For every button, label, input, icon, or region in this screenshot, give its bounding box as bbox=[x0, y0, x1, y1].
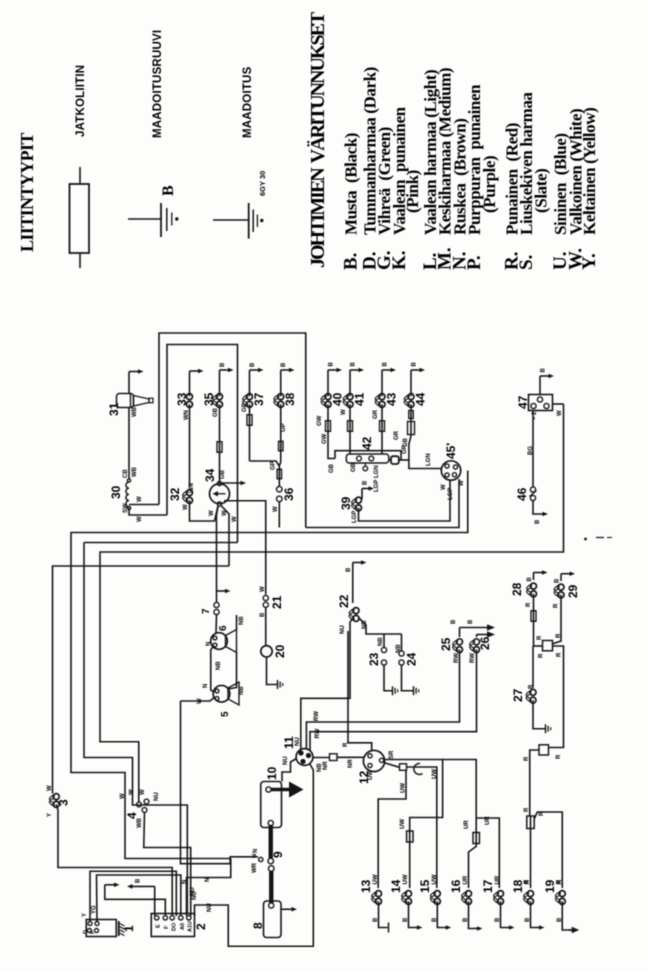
wire 12 right distribution bbox=[384, 760, 443, 832]
wire 33 to connector 32 bbox=[189, 404, 191, 486]
lamp 40 ground arrow bbox=[327, 370, 329, 396]
wire 47 W to long run L3 bbox=[553, 403, 564, 405]
svg-text:R: R bbox=[537, 635, 543, 640]
svg-text:B: B bbox=[329, 362, 335, 367]
svg-text:R: R bbox=[556, 633, 562, 638]
svg-text:W: W bbox=[232, 516, 238, 522]
svg-text:43: 43 bbox=[385, 392, 399, 406]
connector 44 bbox=[408, 394, 414, 400]
svg-text:33: 33 bbox=[175, 392, 189, 406]
wire coil CB to box bbox=[129, 504, 159, 506]
svg-text:NU: NU bbox=[154, 792, 160, 801]
svg-text:N: N bbox=[182, 880, 188, 884]
svg-text:UR: UR bbox=[464, 820, 470, 829]
svg-text:R: R bbox=[526, 602, 532, 607]
svg-text:NB: NB bbox=[239, 616, 245, 625]
lamp 43 ground arrow bbox=[381, 370, 383, 396]
svg-text:4: 4 bbox=[125, 812, 139, 819]
horn 5 bbox=[213, 685, 230, 702]
indicator big arrow bbox=[272, 788, 292, 792]
wire 32 to 34 bottom bbox=[190, 500, 219, 521]
svg-text:20: 20 bbox=[273, 644, 287, 658]
wire 26 to wiper switch 11 bbox=[310, 650, 477, 751]
svg-text:N: N bbox=[203, 684, 209, 688]
wire lamp 19 feed bbox=[534, 812, 562, 888]
svg-text:34: 34 bbox=[203, 468, 217, 482]
svg-text:K.: K. bbox=[389, 250, 410, 270]
svg-text:LGP: LGP bbox=[448, 488, 454, 500]
wire 12 to lamp 13 bbox=[378, 770, 406, 888]
lamp 16 connector bbox=[466, 891, 472, 897]
wire 28 down with fuse bbox=[533, 594, 535, 646]
wire 27 ground bbox=[533, 700, 545, 729]
ignition coil 30 bbox=[127, 479, 130, 482]
svg-text:44: 44 bbox=[414, 392, 428, 406]
wire 25 to wiper switch 11 bbox=[306, 650, 459, 750]
wire 29 down to connector block bbox=[552, 595, 561, 644]
connector 25 bbox=[457, 639, 463, 645]
svg-text:RW: RW bbox=[470, 653, 476, 663]
svg-text:B.: B. bbox=[340, 253, 361, 270]
svg-text:5: 5 bbox=[220, 711, 231, 717]
svg-text:MAADOITUS: MAADOITUS bbox=[242, 66, 254, 138]
lamp 26 ground arrow bbox=[476, 635, 478, 638]
svg-text:31: 31 bbox=[107, 402, 121, 416]
lamp 41 ground arrow bbox=[349, 370, 351, 396]
switch 34 ground arrow bbox=[222, 482, 242, 484]
lamp 13 connector bbox=[376, 891, 382, 897]
wire 45 to harness box bottom bbox=[306, 479, 459, 528]
svg-text:27: 27 bbox=[511, 688, 525, 702]
svg-text:W: W bbox=[260, 586, 266, 592]
svg-text:D: D bbox=[83, 930, 89, 934]
svg-text:W: W bbox=[441, 484, 447, 490]
connector 39 bbox=[356, 497, 362, 503]
svg-text:UR: UR bbox=[495, 875, 501, 884]
wire connector block to 27 and down bbox=[534, 645, 543, 647]
svg-text:36: 36 bbox=[282, 487, 296, 501]
svg-text:UW: UW bbox=[432, 874, 438, 884]
svg-text:W: W bbox=[209, 510, 215, 516]
pigtail curl bbox=[414, 763, 423, 774]
svg-text:GB: GB bbox=[329, 463, 335, 473]
svg-text:NB: NB bbox=[378, 637, 384, 646]
svg-text:W: W bbox=[183, 504, 189, 510]
wire 47 to horn button 46 BG bbox=[532, 411, 534, 487]
svg-text:NU: NU bbox=[283, 756, 289, 765]
connector 41 bbox=[347, 394, 353, 400]
bullet connector 11-12 bbox=[330, 754, 338, 761]
fuse box 2 bbox=[151, 914, 194, 937]
svg-text:B: B bbox=[541, 368, 547, 373]
svg-text:SW: SW bbox=[123, 503, 129, 513]
ignition unit 1 box bbox=[86, 920, 116, 937]
svg-text:B: B bbox=[383, 362, 389, 367]
svg-text:(Pink): (Pink) bbox=[403, 170, 422, 213]
wire horn 6 to horn 5 left bbox=[211, 647, 214, 693]
horn button 46 bbox=[530, 487, 535, 492]
lamp 38 ground arrow bbox=[280, 370, 282, 396]
connector 4 bbox=[137, 802, 142, 807]
clock 20 ground bbox=[267, 657, 278, 685]
svg-text:– 2: – 2 bbox=[532, 411, 538, 420]
svg-text:UW: UW bbox=[401, 783, 407, 793]
wire 22 to 23/24 NB bbox=[359, 618, 402, 635]
svg-text:GP: GP bbox=[281, 423, 287, 432]
lamp 14 connector bbox=[406, 891, 412, 897]
wire 12 to lamp 15 bbox=[407, 767, 437, 888]
svg-text:B: B bbox=[451, 619, 457, 624]
svg-text:Y: Y bbox=[82, 913, 88, 917]
connector 38 bbox=[278, 394, 284, 400]
svg-text:14: 14 bbox=[389, 879, 403, 893]
connector 35 bbox=[217, 394, 223, 400]
flasher switch 45 bbox=[441, 461, 460, 480]
wire 24 ground bbox=[402, 665, 414, 691]
svg-text:GR: GR bbox=[402, 444, 408, 454]
svg-text:11: 11 bbox=[282, 736, 296, 749]
svg-text:35: 35 bbox=[202, 392, 216, 406]
svg-text:29: 29 bbox=[566, 584, 580, 598]
connector 36 bbox=[278, 466, 280, 486]
connector 27 bbox=[532, 646, 534, 688]
wire run L1 bbox=[71, 471, 468, 859]
connector 7 bbox=[214, 602, 219, 607]
svg-text:R: R bbox=[343, 742, 349, 747]
svg-text:A1U: A1U bbox=[188, 921, 194, 932]
wire 39 to 45 bbox=[359, 480, 451, 521]
svg-text:LIITINTYYPIT: LIITINTYYPIT bbox=[17, 133, 37, 252]
clock 20 bbox=[265, 607, 267, 645]
lamp 15 connector bbox=[434, 891, 440, 897]
wire to lamp 14 with bullet bbox=[409, 831, 411, 888]
lamp 31 body bbox=[117, 394, 134, 408]
wire fuse box N to solenoid bbox=[187, 859, 231, 917]
lamp 25 ground arrow bbox=[459, 628, 461, 638]
wire to lamp 17 bbox=[476, 818, 499, 888]
svg-text:SR: SR bbox=[389, 750, 395, 759]
svg-text:B: B bbox=[412, 362, 418, 367]
svg-text:W: W bbox=[120, 793, 126, 799]
svg-text:B: B bbox=[351, 362, 357, 367]
wire 40 to instrument 42 bbox=[328, 404, 335, 458]
svg-text:23: 23 bbox=[367, 652, 381, 666]
wire 34 to long bus L4 bbox=[222, 506, 230, 566]
svg-text:21: 21 bbox=[270, 595, 284, 609]
wire harness box inner bbox=[167, 345, 238, 543]
svg-text:GB: GB bbox=[213, 407, 219, 417]
wire to lamp 16 with bullet bbox=[469, 818, 477, 888]
svg-text:R: R bbox=[524, 879, 530, 884]
connector 33 bbox=[187, 394, 193, 400]
svg-text:UW: UW bbox=[403, 874, 409, 884]
svg-text:UW: UW bbox=[373, 874, 379, 884]
wire 11 to wiper motor 12 bbox=[313, 757, 329, 759]
svg-text:WR: WR bbox=[252, 862, 258, 873]
svg-text:R: R bbox=[557, 879, 563, 884]
svg-text:16: 16 bbox=[449, 879, 463, 893]
lamp 19 connector bbox=[559, 891, 565, 897]
svg-text:13: 13 bbox=[359, 879, 373, 893]
wire run L3 bbox=[100, 404, 564, 554]
svg-text:25: 25 bbox=[439, 637, 453, 651]
wire 36 down to bottom bus bbox=[278, 502, 280, 528]
wire 43 to instrument 42 bbox=[381, 404, 383, 454]
svg-text:39: 39 bbox=[339, 496, 353, 510]
relay 47 ground arrow bbox=[539, 376, 541, 395]
svg-text:40: 40 bbox=[331, 392, 345, 406]
switch 22 ground arrow bbox=[352, 563, 354, 604]
svg-text:CB: CB bbox=[123, 469, 129, 478]
svg-text:W: W bbox=[273, 506, 279, 512]
svg-text:GB: GB bbox=[351, 462, 357, 472]
svg-text:NU: NU bbox=[340, 625, 346, 634]
svg-text:N: N bbox=[253, 849, 259, 853]
svg-text:B: B bbox=[250, 362, 256, 367]
svg-text:W: W bbox=[341, 409, 347, 415]
svg-text:JOHTIMIEN VÄRITUNNUKSET: JOHTIMIEN VÄRITUNNUKSET bbox=[306, 11, 329, 268]
unit 1 ground arrow bbox=[105, 885, 166, 916]
svg-text:LGP: LGP bbox=[352, 511, 358, 523]
svg-text:GW: GW bbox=[322, 433, 328, 444]
svg-text:42: 42 bbox=[360, 436, 374, 450]
svg-text:UR: UR bbox=[463, 875, 469, 884]
svg-text:W: W bbox=[197, 698, 203, 704]
svg-text:Musta (Black): Musta (Black) bbox=[341, 133, 360, 235]
ignition unit 1 ground hatch bbox=[118, 921, 120, 936]
svg-text:NB: NB bbox=[216, 661, 222, 670]
wire 34 right to lamp 21 and clock 20 bbox=[224, 501, 266, 595]
instrument cluster 42 top rail bbox=[335, 451, 401, 460]
wire 12 top R to fuse box bbox=[348, 631, 372, 751]
wire 42 to flasher 45 LGN bbox=[409, 460, 442, 469]
svg-text:WB: WB bbox=[132, 466, 138, 477]
wire run L2 bbox=[84, 543, 187, 914]
svg-text:7: 7 bbox=[201, 608, 212, 614]
starter motor 8 bbox=[264, 901, 282, 938]
svg-text:6GY 30: 6GY 30 bbox=[258, 171, 267, 196]
symbol jatkoliitin connector bbox=[79, 167, 81, 184]
wire run L4 bbox=[53, 566, 230, 794]
lamp 35 ground arrow bbox=[219, 370, 221, 396]
lamp 28 ground arrow bbox=[533, 573, 535, 581]
svg-text:WB: WB bbox=[132, 406, 138, 417]
svg-text:NB: NB bbox=[239, 686, 245, 695]
wire lamp 18 feed bullet bbox=[530, 816, 532, 888]
wire unit 1 Y to fuse box bbox=[90, 871, 176, 921]
svg-text:N: N bbox=[205, 878, 211, 882]
svg-text:R: R bbox=[556, 754, 562, 759]
svg-text:B: B bbox=[468, 619, 474, 624]
connector 3 bbox=[53, 794, 59, 800]
svg-text:26: 26 bbox=[478, 636, 492, 650]
svg-text:W: W bbox=[137, 516, 143, 522]
wire horn 5 W to starter area bbox=[181, 697, 215, 701]
horn 6 bbox=[215, 615, 218, 633]
svg-text:WB: WB bbox=[137, 817, 143, 828]
svg-text:41: 41 bbox=[353, 392, 367, 406]
wire 37 jog right to connector 36 bbox=[250, 461, 280, 466]
starter 8 ground arrow bbox=[281, 908, 293, 910]
instrument 42 connector square bbox=[389, 459, 391, 461]
connector 37 bbox=[247, 394, 253, 400]
svg-text:UW: UW bbox=[368, 770, 374, 780]
starter solenoid 9 upper bar bbox=[269, 826, 273, 859]
horn button 46 ground arrow bbox=[533, 501, 541, 514]
wire 34 to connector 7 bbox=[217, 506, 219, 602]
wire harness box outer bbox=[159, 333, 306, 528]
wire 41 to instrument 42 bbox=[349, 404, 351, 454]
svg-text:LGN: LGN bbox=[426, 453, 432, 466]
connector 24 bbox=[399, 651, 404, 656]
svg-text:N: N bbox=[252, 854, 258, 858]
svg-text:22: 22 bbox=[337, 594, 351, 608]
svg-text:(Purple): (Purple) bbox=[480, 156, 499, 213]
svg-text:15: 15 bbox=[418, 879, 432, 893]
svg-text:W: W bbox=[140, 789, 146, 795]
svg-text:RW: RW bbox=[314, 711, 320, 721]
svg-text:38: 38 bbox=[283, 392, 297, 406]
svg-text:19: 19 bbox=[543, 879, 557, 893]
wire bullet to lamp 18 drop bbox=[530, 750, 539, 816]
horn relay 47 bbox=[529, 395, 553, 411]
wire unit 1 YG to fuse box bbox=[97, 875, 181, 922]
svg-text:GR: GR bbox=[373, 409, 379, 419]
wiper motor 12 bbox=[363, 750, 384, 771]
wire 37 down with fuse bbox=[249, 404, 251, 461]
direction indicator unit 10 bbox=[261, 782, 282, 828]
svg-text:B: B bbox=[346, 567, 352, 572]
wire 4 down to fuse box bbox=[144, 812, 191, 916]
wiper switch 11 bbox=[296, 749, 313, 766]
svg-text:W: W bbox=[47, 785, 53, 791]
svg-text:B: B bbox=[220, 362, 226, 367]
svg-text:GR: GR bbox=[394, 430, 400, 440]
wire run L3 into connector 4 bbox=[138, 800, 140, 802]
svg-text:R: R bbox=[524, 807, 530, 812]
starter solenoid 9 lower bar bbox=[268, 866, 274, 872]
wire 31 to coil 30 bbox=[128, 408, 130, 480]
svg-text:R: R bbox=[539, 653, 545, 658]
connector 26 bbox=[474, 639, 480, 645]
svg-text:10: 10 bbox=[265, 766, 279, 780]
wire 35 to switch 34 with fuse bbox=[219, 404, 221, 483]
lamp 37 ground arrow bbox=[249, 370, 251, 396]
svg-text:W: W bbox=[557, 410, 563, 416]
svg-text:18: 18 bbox=[511, 879, 525, 893]
svg-text:GB: GB bbox=[220, 469, 226, 479]
lamp 33 ground arrow bbox=[189, 371, 191, 396]
switch 34 (ignition/light switch) bbox=[210, 484, 230, 504]
lamp 18 connector bbox=[528, 891, 534, 897]
svg-text:30: 30 bbox=[109, 485, 123, 499]
connector 32 bbox=[187, 490, 193, 496]
connector 23 bbox=[381, 647, 386, 652]
svg-text:37: 37 bbox=[252, 392, 266, 406]
lamp 17 connector bbox=[498, 891, 504, 897]
svg-text:45': 45' bbox=[444, 443, 458, 459]
lamp 44 ground arrow bbox=[410, 370, 412, 396]
svg-text:R: R bbox=[529, 684, 535, 689]
svg-text:46: 46 bbox=[515, 487, 529, 501]
lamp 29 ground arrow bbox=[560, 574, 562, 581]
stray dashes bbox=[596, 537, 604, 539]
solenoid 9 WR terminal bbox=[260, 858, 262, 860]
svg-text:Y: Y bbox=[47, 813, 53, 817]
svg-text:W: W bbox=[459, 480, 465, 486]
svg-text:B: B bbox=[160, 185, 177, 196]
svg-text:6: 6 bbox=[218, 625, 229, 631]
svg-text:S.: S. bbox=[516, 255, 537, 270]
svg-text:8: 8 bbox=[251, 922, 265, 929]
svg-text:Keltainen (Yellow): Keltainen (Yellow) bbox=[580, 108, 599, 235]
instrument cluster 42 inner box bbox=[346, 454, 389, 463]
svg-text:B: B bbox=[555, 578, 561, 583]
svg-text:P.: P. bbox=[464, 255, 485, 270]
svg-text:17: 17 bbox=[481, 879, 495, 893]
connector 29 bbox=[558, 584, 564, 590]
connector 39 ground arrow bbox=[361, 489, 363, 500]
svg-text:47: 47 bbox=[516, 395, 530, 409]
wire 44 to instrument 42 bbox=[409, 404, 411, 460]
svg-text:24: 24 bbox=[405, 652, 419, 666]
svg-text:W: W bbox=[129, 789, 135, 795]
svg-text:R: R bbox=[557, 652, 563, 657]
svg-text:B: B bbox=[527, 577, 533, 582]
svg-text:3: 3 bbox=[57, 799, 71, 806]
connector 21 bbox=[263, 595, 268, 600]
svg-text:9: 9 bbox=[271, 851, 285, 858]
connector 22 bbox=[353, 608, 359, 614]
svg-text:JATKOLIITIN: JATKOLIITIN bbox=[75, 65, 87, 137]
symbol maadoitusruuvi ground screw B bbox=[128, 218, 161, 220]
bullet connector 12 right bbox=[384, 763, 400, 768]
connector 40 bbox=[325, 394, 331, 400]
svg-text:B: B bbox=[281, 362, 287, 367]
svg-text:B: B bbox=[136, 878, 142, 883]
svg-text:UW: UW bbox=[432, 769, 438, 779]
svg-text:LGP: LGP bbox=[374, 480, 380, 492]
svg-text:E: E bbox=[156, 924, 162, 928]
svg-text:RW: RW bbox=[315, 728, 321, 738]
svg-text:N: N bbox=[206, 642, 212, 646]
connector 28 bbox=[531, 583, 537, 589]
svg-text:MAADOITUSRUUVI: MAADOITUSRUUVI bbox=[152, 30, 164, 138]
svg-text:DO: DO bbox=[172, 922, 178, 931]
wire coil SW to inner box bbox=[129, 508, 167, 515]
wire 23 ground bbox=[384, 665, 392, 691]
wire 11 to main feed bus bbox=[195, 764, 314, 947]
svg-text:LGN: LGN bbox=[374, 465, 380, 478]
svg-text:NU: NU bbox=[190, 887, 196, 896]
svg-text:NU: NU bbox=[207, 903, 213, 912]
svg-text:BG: BG bbox=[528, 446, 534, 455]
svg-text:B: B bbox=[535, 519, 541, 524]
svg-text:GP: GP bbox=[242, 403, 248, 412]
svg-text:(Slate): (Slate) bbox=[532, 169, 551, 213]
svg-text:W: W bbox=[137, 496, 143, 502]
wire 3 down to fuse box bbox=[56, 804, 172, 916]
wire 38 down to connector 36 bbox=[279, 404, 280, 466]
svg-text:28: 28 bbox=[510, 582, 524, 596]
svg-text:GP: GP bbox=[271, 461, 277, 470]
wire horn 6 right loop bbox=[236, 615, 238, 630]
svg-text:2: 2 bbox=[194, 923, 208, 930]
connector 7 ground arrow bbox=[217, 590, 227, 592]
wire 22 to 11 NU bbox=[301, 618, 354, 750]
fuse box 2 earth arrow bbox=[132, 885, 155, 887]
svg-text:UW: UW bbox=[400, 819, 406, 829]
